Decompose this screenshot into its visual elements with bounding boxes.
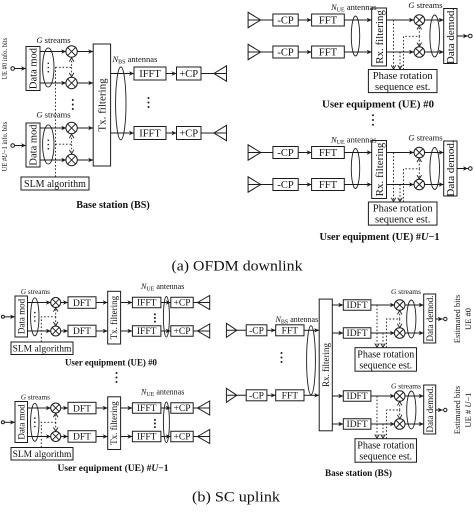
svg-text:FFT: FFT xyxy=(282,392,299,402)
svg-text:-CP: -CP xyxy=(277,16,294,27)
wire +CP to antenna 2 xyxy=(201,132,227,134)
stream bus ellipse (BS RX g1) xyxy=(407,300,416,338)
box Phase rotation sequence est. (BS RX g2) xyxy=(355,439,417,463)
wire -CP to FFT xyxy=(298,18,311,22)
box DFT (UE#0 row 1) xyxy=(68,297,96,309)
svg-text:-CP: -CP xyxy=(277,148,294,159)
dashed arrowhead down xyxy=(391,198,396,202)
wire Tx filtering to IFFT 2 xyxy=(111,131,134,135)
vertical dots between BS TX antenna rows xyxy=(148,97,150,108)
wire FFT to Rx filtering xyxy=(344,150,371,154)
svg-text:User equipment (UE) #U−1: User equipment (UE) #U−1 xyxy=(320,232,440,243)
multiplier (BS TX g2 stream 1) xyxy=(66,122,77,133)
wire multiplier to Data demod xyxy=(425,18,444,22)
wire antenna to -CP xyxy=(248,184,273,186)
svg-text:Base station (BS): Base station (BS) xyxy=(76,200,150,211)
dashed sample stream 1 xyxy=(376,396,378,437)
svg-text:UE #0: UE #0 xyxy=(463,308,473,330)
wire IDFT to multiplier xyxy=(371,422,395,426)
wire multiplier to DFT 2 xyxy=(61,329,68,333)
antenna (UE#0 RX 1) xyxy=(248,12,261,27)
wire IFFT to +CP 1 xyxy=(161,300,171,304)
box +CP (UE#U-1 row 2) xyxy=(171,431,193,442)
wire -CP to FFT xyxy=(298,182,311,186)
box +CP (BS TX row 1) xyxy=(177,67,202,80)
wire multiplier to DFT 1 xyxy=(61,406,68,410)
box -CP (BS RX row 1) xyxy=(246,325,267,337)
wire +CP to antenna 1 xyxy=(201,73,227,75)
svg-text:DFT: DFT xyxy=(73,299,91,309)
wire multiplier to Data demod xyxy=(405,331,424,335)
svg-text:IFFT: IFFT xyxy=(139,129,161,140)
box SLM algorithm (BS TX) xyxy=(21,177,89,190)
svg-text:G streams: G streams xyxy=(21,287,50,296)
arrowhead into multiplier g1s1 xyxy=(61,49,66,53)
wire Data mod stream 2 xyxy=(28,436,51,438)
svg-text:FFT: FFT xyxy=(319,180,338,191)
box Data mod (BS TX, UE #U-1) xyxy=(26,123,40,167)
svg-text:Rx. filtering: Rx. filtering xyxy=(374,142,386,196)
dashed arrowhead up xyxy=(69,58,74,62)
wire FFT to Rx filtering 2 xyxy=(304,393,319,397)
svg-text:Data demod.: Data demod. xyxy=(445,8,457,64)
wire multiplier to Data demod xyxy=(425,150,444,154)
box IDFT (g2 row 1) xyxy=(343,391,371,402)
arrowhead into multiplier stream 1 xyxy=(46,406,51,410)
dashed arrowhead down xyxy=(381,343,386,347)
box Data demod. (UE#0) xyxy=(444,8,457,64)
wire multiplier to Tx filtering xyxy=(77,81,93,85)
wire input to Data mod xyxy=(4,315,15,319)
box -CP (UE#U-1 row 1) xyxy=(273,147,298,160)
dashed arrowhead down xyxy=(375,343,380,347)
svg-text:SLM algorithm: SLM algorithm xyxy=(24,179,86,190)
dashed sample stream 2 xyxy=(382,333,384,346)
box SLM algorithm (UE#0 TX) xyxy=(11,342,73,355)
dashed arrowhead down xyxy=(381,434,386,438)
output terminal (UE#0) xyxy=(469,34,473,38)
wire -CP to FFT 2 xyxy=(267,393,276,397)
wire DFT to Tx filtering xyxy=(96,406,108,410)
wire Data mod 2 stream 2 xyxy=(40,159,66,161)
box IFFT (UE#U-1 row 2) xyxy=(132,431,161,442)
wire Rx filtering to multiplier 2 xyxy=(387,50,415,54)
svg-text:IFFT: IFFT xyxy=(139,69,161,80)
box Data demod. (BS RX g1) xyxy=(424,294,436,343)
group User equipment (UE) #0 transmitter xyxy=(1,282,209,369)
svg-text:(b) SC uplink: (b) SC uplink xyxy=(192,490,281,506)
svg-text:Tx. filtering: Tx. filtering xyxy=(109,401,119,445)
svg-text:Data demod.: Data demod. xyxy=(445,140,457,196)
wire Data demod to output xyxy=(457,34,468,38)
svg-text:sequence est.: sequence est. xyxy=(359,360,412,371)
dashed arrowhead up xyxy=(53,308,58,312)
antenna bus ellipse (UE#U-1) xyxy=(351,149,359,189)
svg-text:Data mod: Data mod xyxy=(29,47,40,89)
arrowhead into multiplier stream 2 xyxy=(46,329,51,333)
wire DFT to Tx filtering xyxy=(96,300,108,304)
svg-text:Estimated bits: Estimated bits xyxy=(452,295,462,343)
wire IDFT to multiplier xyxy=(371,331,395,335)
wire Data mod stream 1 xyxy=(28,302,51,304)
svg-text:sequence est.: sequence est. xyxy=(375,214,430,225)
svg-text:User equipment (UE) #0: User equipment (UE) #0 xyxy=(322,100,434,111)
svg-text:-CP: -CP xyxy=(249,327,264,337)
box IFFT (UE#0 row 2) xyxy=(132,326,161,337)
vertical dots between UE transmitters xyxy=(116,372,118,383)
antenna (UE#0 RX 2) xyxy=(248,44,261,59)
multiplier (BS RX g2 stream 1) xyxy=(394,391,405,402)
multiplier (UE#U-1 stream 1) xyxy=(414,147,425,158)
dashed SLM control xyxy=(41,309,55,342)
multiplier (BS TX g1 stream 1) xyxy=(66,46,77,57)
dashed arrowhead down xyxy=(375,434,380,438)
input terminal (UE#0 TX) xyxy=(1,315,4,318)
dashed arrowhead down xyxy=(53,322,58,326)
group Base station receiver xyxy=(226,287,472,479)
box -CP (BS RX row 2) xyxy=(246,390,267,402)
box IDFT (g1 row 1) xyxy=(343,300,371,311)
svg-text:G streams: G streams xyxy=(408,133,442,143)
svg-text:IDFT: IDFT xyxy=(347,420,368,430)
wire Rx filtering to multiplier 1 xyxy=(387,18,415,22)
wire -CP to FFT xyxy=(298,150,311,154)
wire +CP to antenna 1 xyxy=(193,302,210,304)
svg-text:NUE antennas: NUE antennas xyxy=(140,282,184,293)
antenna bus ellipse (UE#0 TX) xyxy=(163,297,169,338)
wire Data mod stream 1 xyxy=(28,407,51,409)
box -CP (UE#U-1 row 2) xyxy=(273,179,298,192)
wire Tx filtering to IFFT 2 xyxy=(121,329,133,333)
antenna bus ellipse (UE#0) xyxy=(351,16,359,56)
dashed branch to g1 multipliers xyxy=(56,60,72,68)
svg-text:IDFT: IDFT xyxy=(347,301,368,311)
svg-text:+CP: +CP xyxy=(179,129,198,140)
box DFT (UE#U-1 row 1) xyxy=(68,402,96,414)
svg-text:IFFT: IFFT xyxy=(137,404,157,414)
svg-text:FFT: FFT xyxy=(319,16,338,27)
antenna (BS RX 1) xyxy=(226,323,237,337)
wire antenna to -CP 2 xyxy=(226,394,246,396)
wire -CP to FFT 1 xyxy=(267,328,276,332)
vertical dots between IFFT rows xyxy=(154,313,156,322)
box IFFT (UE#0 row 1) xyxy=(132,297,161,308)
wire FFT to Rx filtering xyxy=(344,182,371,186)
stream bus ellipse (UE#0) xyxy=(430,15,440,57)
svg-text:IFFT: IFFT xyxy=(137,433,157,443)
wire DFT to Tx filtering xyxy=(96,434,108,438)
arrowhead into multiplier g2s1 xyxy=(61,126,66,130)
box IFFT (UE#U-1 row 1) xyxy=(132,403,161,414)
svg-text:IDFT: IDFT xyxy=(347,329,368,339)
box Data mod (UE#0 TX) xyxy=(15,296,28,337)
dashed SLM control trunk xyxy=(55,67,57,177)
svg-text:-CP: -CP xyxy=(277,48,294,59)
svg-text:UE # U−1: UE # U−1 xyxy=(463,392,473,427)
wire multiplier to DFT 1 xyxy=(61,300,68,304)
box Tx. filtering (UE#0 TX) xyxy=(108,291,121,344)
svg-text:Estimated bits: Estimated bits xyxy=(452,386,462,434)
wire input to Data mod 1 xyxy=(15,66,27,70)
svg-text:Data mod: Data mod xyxy=(29,124,40,166)
wire Data mod stream 2 xyxy=(28,330,51,332)
svg-text:SLM algorithm: SLM algorithm xyxy=(13,450,72,460)
group User equipment (UE) #U-1 receiver xyxy=(248,133,472,244)
svg-text:SLM algorithm: SLM algorithm xyxy=(13,344,72,354)
wire multiplier to Tx filtering xyxy=(77,126,93,130)
wire IFFT to +CP 1 xyxy=(161,406,171,410)
dashed arrowhead down xyxy=(69,150,74,154)
stream bus ellipse (UE#0 TX) xyxy=(31,298,39,336)
wire Data demod to output xyxy=(436,317,443,321)
svg-text:-CP: -CP xyxy=(277,180,294,191)
svg-text:NBS antennas: NBS antennas xyxy=(275,315,319,326)
dashed arrowhead down xyxy=(398,198,403,202)
multiplier (UE#0 TX stream 2) xyxy=(51,326,61,336)
box +CP (BS TX row 2) xyxy=(177,127,202,140)
dashed SLM control down xyxy=(55,317,57,324)
box FFT (UE#0 row 2) xyxy=(312,46,345,59)
box Data mod (UE#U-1 TX) xyxy=(15,402,28,443)
svg-text:Rx. filtering: Rx. filtering xyxy=(374,10,386,64)
stream bus ellipse (BS RX g2) xyxy=(407,391,416,429)
svg-text:G streams: G streams xyxy=(36,110,70,120)
wire antenna to -CP xyxy=(248,51,273,53)
svg-text:+CP: +CP xyxy=(174,327,191,337)
antenna bus ellipse (UE#U-1 TX) xyxy=(163,402,169,443)
box DFT (UE#0 row 2) xyxy=(68,325,96,337)
box FFT (BS RX row 2) xyxy=(276,390,304,402)
svg-text:Tx. filtering: Tx. filtering xyxy=(109,295,119,339)
svg-text:sequence est.: sequence est. xyxy=(375,82,430,93)
wire Tx filtering to IFFT 1 xyxy=(111,71,134,75)
wire Rx filtering to multiplier 1 xyxy=(387,150,415,154)
wire IFFT to +CP xyxy=(166,71,177,75)
dashed SLM control xyxy=(41,415,55,448)
wire multiplier to Data demod xyxy=(405,303,424,307)
svg-text:sequence est.: sequence est. xyxy=(359,451,412,462)
box IDFT (g1 row 2) xyxy=(343,328,371,339)
svg-text:Phase rotation: Phase rotation xyxy=(357,350,414,361)
antenna bus ellipse (BS RX) xyxy=(307,326,316,395)
wire Rx filtering to multiplier 2 xyxy=(387,182,415,186)
wire FFT to Rx filtering xyxy=(344,18,371,22)
wire IFFT to +CP 2 xyxy=(161,329,171,333)
svg-text:Data demod.: Data demod. xyxy=(425,387,435,433)
svg-text:(a) OFDM downlink: (a) OFDM downlink xyxy=(172,259,304,275)
wire multiplier to Data demod xyxy=(405,422,424,426)
multiplier (BS TX g2 stream 2) xyxy=(66,154,77,165)
wire multiplier to Data demod xyxy=(425,182,444,186)
dashed arrowhead down xyxy=(69,73,74,77)
box Data demod. (UE#U-1) xyxy=(444,140,457,196)
multiplier (BS TX g1 stream 2) xyxy=(66,77,77,88)
wire Tx filtering to IFFT 1 xyxy=(121,300,133,304)
multiplier (BS RX g1 stream 1) xyxy=(394,300,405,311)
svg-text:IFFT: IFFT xyxy=(137,299,157,309)
dashed arrowhead up xyxy=(397,402,402,406)
svg-text:Phase rotation: Phase rotation xyxy=(373,71,434,82)
multiplier (UE#U-1 TX stream 2) xyxy=(51,432,61,442)
svg-text:UE #U−1 info. bits: UE #U−1 info. bits xyxy=(0,122,9,172)
wire Rx filtering to IDFT xyxy=(332,422,343,426)
dashed arrowhead up xyxy=(397,311,402,315)
antenna bus ellipse (BS TX) xyxy=(116,67,126,140)
box Rx. filtering (UE#U-1) xyxy=(372,141,387,199)
dashed sample stream 1 xyxy=(376,305,378,346)
dashed branch down g2 xyxy=(71,144,73,152)
box DFT (UE#U-1 row 2) xyxy=(68,431,96,443)
svg-text:FFT: FFT xyxy=(319,48,338,59)
wire Tx filtering to IFFT 1 xyxy=(121,406,133,410)
wire Rx filtering to IDFT xyxy=(332,303,343,307)
box Phase rotation sequence est. (UE#U-1) xyxy=(368,202,437,225)
dashed branch to g2 multipliers xyxy=(56,136,72,144)
svg-text:Data mod: Data mod xyxy=(16,404,26,440)
svg-text:NBS antennas: NBS antennas xyxy=(112,54,158,66)
svg-text:FFT: FFT xyxy=(319,148,338,159)
box SLM algorithm (UE#U-1 TX) xyxy=(11,448,73,461)
antenna (UE#U-1 RX 2) xyxy=(248,177,261,192)
output terminal (BS RX g1) xyxy=(444,317,447,320)
dashed arrowhead up xyxy=(417,158,422,162)
wire antenna to -CP 1 xyxy=(226,329,246,331)
box Data demod. (BS RX g2) xyxy=(424,385,436,434)
stream bus ellipse (BS TX group 1) xyxy=(43,48,54,87)
svg-text:NUE antennas: NUE antennas xyxy=(140,388,184,399)
output terminal (UE#U-1) xyxy=(469,167,473,171)
antenna (UE#U-1 TX 1) xyxy=(198,401,210,415)
antenna (UE#0 TX 2) xyxy=(198,324,210,338)
wire Data demod to output xyxy=(457,166,468,170)
dashed control down xyxy=(418,169,420,178)
svg-text:DFT: DFT xyxy=(73,327,91,337)
dashed arrowhead up xyxy=(53,413,58,417)
svg-text:+CP: +CP xyxy=(174,404,191,414)
dashed branch down g1 xyxy=(71,67,73,75)
wire multiplier to Data demod xyxy=(405,394,424,398)
wire IDFT to multiplier xyxy=(371,303,395,307)
wire +CP to antenna 1 xyxy=(193,407,210,409)
wire Data demod to output xyxy=(436,408,443,412)
svg-text:UE #0 info. bits: UE #0 info. bits xyxy=(0,38,9,80)
svg-text:+CP: +CP xyxy=(174,433,191,443)
dashed arrowhead up xyxy=(69,134,74,138)
output terminal (BS RX g2) xyxy=(444,408,447,411)
box Rx. filtering (BS RX) xyxy=(319,299,332,431)
svg-text:G streams: G streams xyxy=(408,0,442,10)
multiplier (UE#0 stream 2) xyxy=(414,47,425,58)
antenna (BS TX 2) xyxy=(214,125,227,140)
wire -CP to FFT xyxy=(298,50,311,54)
svg-text:Data demod.: Data demod. xyxy=(425,296,435,342)
svg-text:Data mod: Data mod xyxy=(16,298,26,334)
wire IFFT to +CP 2 xyxy=(161,434,171,438)
dashed arrowhead down xyxy=(417,175,422,179)
antenna (BS RX 2) xyxy=(226,388,237,402)
box +CP (UE#0 row 2) xyxy=(171,326,193,337)
box -CP (UE#0 row 1) xyxy=(273,14,298,27)
vertical dots between BS TX groups xyxy=(72,99,74,110)
svg-text:Phase rotation: Phase rotation xyxy=(373,204,434,215)
svg-text:+CP: +CP xyxy=(174,299,191,309)
dashed control to multipliers xyxy=(404,160,420,202)
box FFT (UE#U-1 row 1) xyxy=(312,147,345,160)
box IFFT (BS TX row 2) xyxy=(134,127,166,140)
wire Rx filtering to IDFT xyxy=(332,394,343,398)
wire Tx filtering to IFFT 2 xyxy=(121,434,133,438)
box IFFT (BS TX row 1) xyxy=(134,67,166,80)
dashed control down xyxy=(399,410,401,417)
svg-text:+CP: +CP xyxy=(179,69,198,80)
antenna (BS TX 1) xyxy=(214,66,227,81)
box IDFT (g2 row 2) xyxy=(343,419,371,430)
dashed arrowhead down xyxy=(53,427,58,431)
wire antenna to -CP xyxy=(248,152,273,154)
box +CP (UE#U-1 row 1) xyxy=(171,403,193,414)
svg-text:FFT: FFT xyxy=(282,327,299,337)
box +CP (UE#0 row 1) xyxy=(171,297,193,308)
wire IDFT to multiplier xyxy=(371,394,395,398)
arrowhead into multiplier g2s2 xyxy=(61,158,66,162)
dashed arrowhead down xyxy=(417,43,422,47)
dashed control down xyxy=(399,319,401,326)
dashed control to multipliers xyxy=(387,312,400,348)
svg-text:Rx. filtering: Rx. filtering xyxy=(321,342,331,386)
multiplier (UE#U-1 TX stream 1) xyxy=(51,403,61,413)
dashed sample from stream 1 xyxy=(393,20,395,68)
dashed sample from stream 2 xyxy=(399,185,401,201)
box -CP (UE#0 row 2) xyxy=(273,46,298,59)
group User equipment (UE) #U-1 transmitter xyxy=(1,388,209,475)
svg-text:G streams: G streams xyxy=(21,393,50,402)
wire input to Data mod xyxy=(4,420,15,424)
input terminal UE #0 bits xyxy=(11,67,15,71)
svg-text:-CP: -CP xyxy=(249,392,264,402)
wire Rx filtering to IDFT xyxy=(332,331,343,335)
dashed control to multipliers xyxy=(404,27,420,69)
antenna (UE#0 TX 1) xyxy=(198,296,210,310)
dashed arrowhead down xyxy=(391,65,396,69)
wire Data mod 2 stream 1 xyxy=(40,127,66,129)
input terminal (UE#U-1 TX) xyxy=(1,421,4,424)
dashed sample from stream 2 xyxy=(399,52,401,68)
wire Data mod 1 stream 2 xyxy=(40,82,66,84)
svg-text:IFFT: IFFT xyxy=(137,327,157,337)
svg-text:G streams: G streams xyxy=(36,35,70,45)
svg-text:G streams: G streams xyxy=(391,382,421,391)
wire multiplier to Data demod xyxy=(425,50,444,54)
wire antenna to -CP xyxy=(248,19,273,21)
box Tx. filtering (BS TX) xyxy=(93,44,110,166)
antenna (UE#U-1 TX 2) xyxy=(198,430,210,444)
dashed arrowhead up xyxy=(417,26,422,30)
dashed control to multipliers xyxy=(387,403,400,439)
svg-text:NUE antennas: NUE antennas xyxy=(330,2,377,14)
wire FFT to Rx filtering 1 xyxy=(304,328,319,332)
stream bus ellipse (UE#U-1 TX) xyxy=(31,403,39,441)
input terminal UE #U-1 bits xyxy=(11,144,15,148)
svg-text:User equipment (UE) #U−1: User equipment (UE) #U−1 xyxy=(58,463,169,474)
svg-text:NUE antennas: NUE antennas xyxy=(330,135,377,147)
vertical dots between IFFT rows xyxy=(154,419,156,428)
multiplier (BS RX g2 stream 2) xyxy=(394,419,405,430)
stream bus ellipse (UE#U-1) xyxy=(430,148,440,190)
wire Data mod 1 stream 1 xyxy=(40,51,66,53)
wire IFFT to +CP xyxy=(166,131,177,135)
multiplier (UE#U-1 stream 2) xyxy=(414,179,425,190)
svg-text:Phase rotation: Phase rotation xyxy=(357,441,414,452)
